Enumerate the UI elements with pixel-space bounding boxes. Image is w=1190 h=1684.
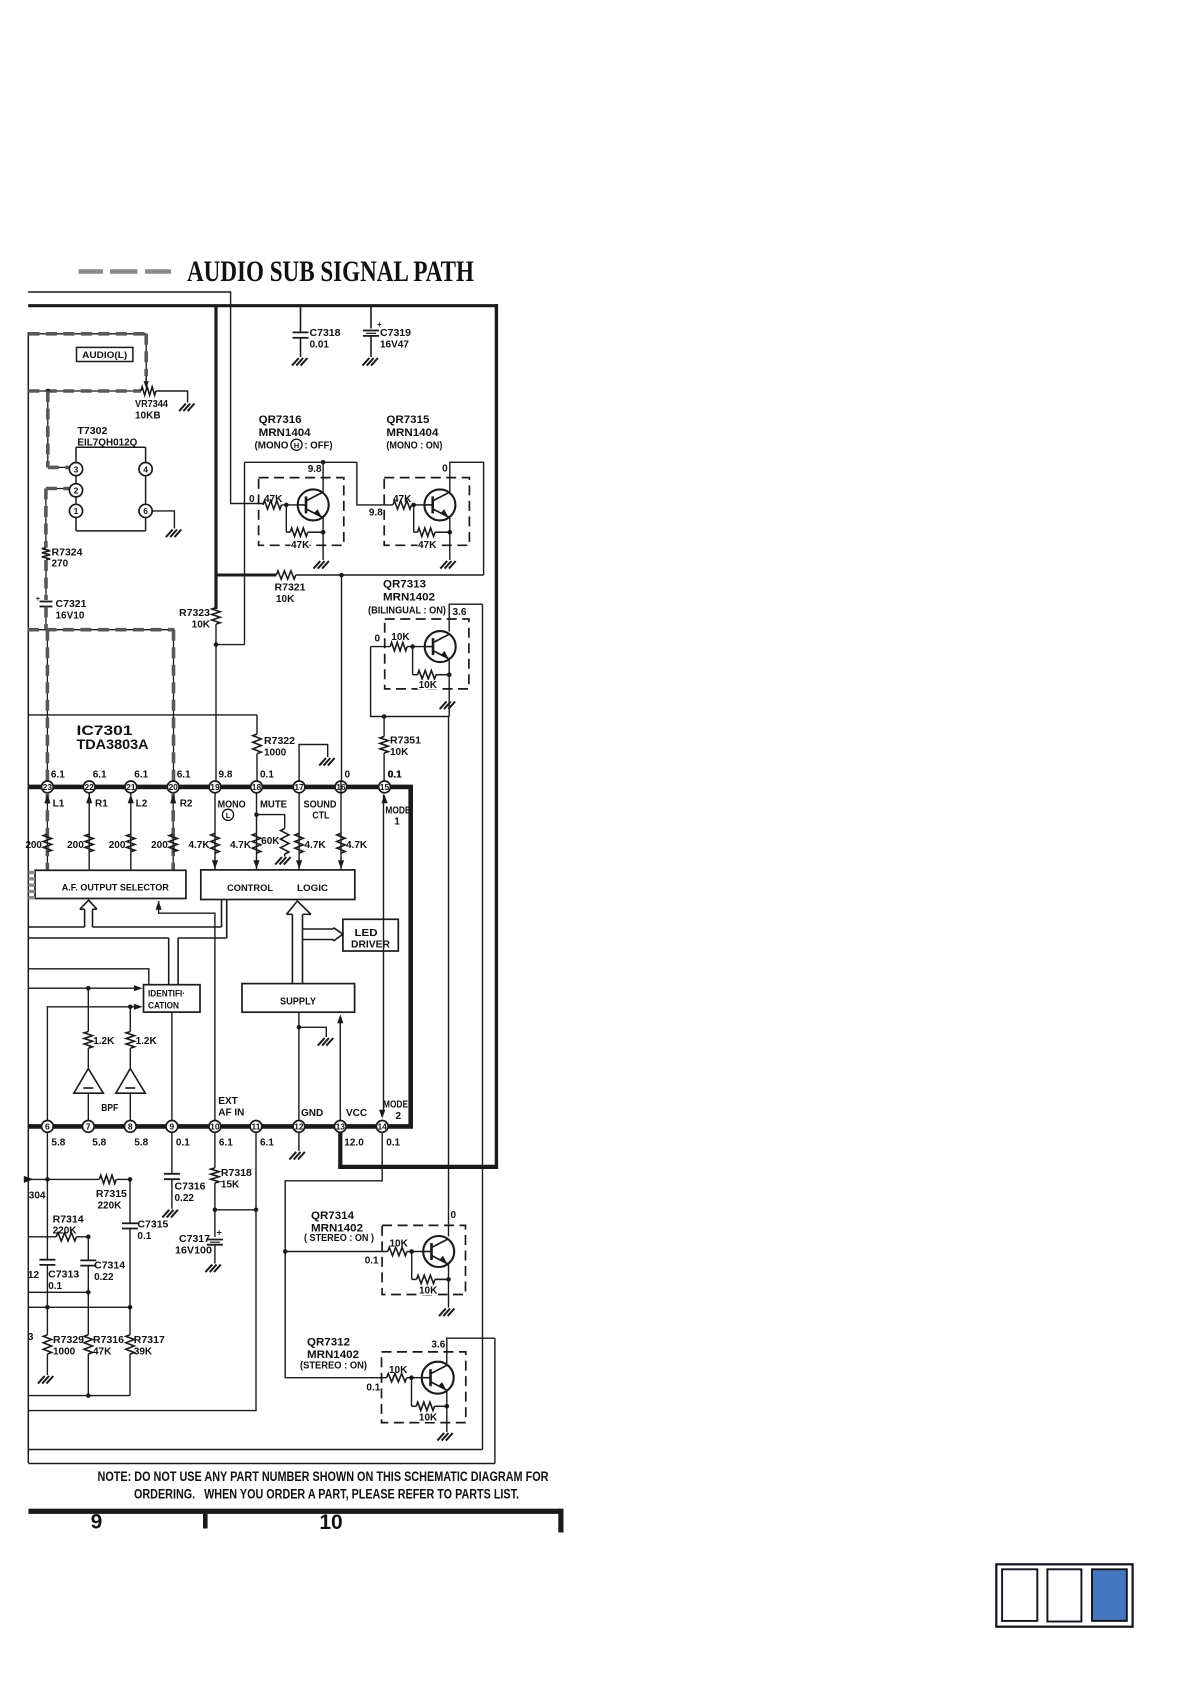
svg-text:3.6: 3.6	[453, 607, 467, 618]
IC7301 top pin bar	[28, 785, 413, 790]
pin 12 IC7301	[293, 1121, 305, 1133]
ground at C7316	[162, 1210, 169, 1218]
junction R7351 top	[382, 714, 387, 719]
wire: QR7312 emitter to ground	[446, 1390, 448, 1432]
wire: pin 21 to selector	[130, 793, 132, 871]
resistor 4.7K (pin18)	[230, 833, 261, 853]
junction mode2 to QR7314	[283, 1249, 288, 1254]
svg-text:9: 9	[91, 1511, 103, 1534]
svg-text:MODE: MODE	[385, 806, 410, 817]
svg-text:C7321: C7321	[56, 599, 87, 610]
junction QR7316 emitter	[321, 530, 326, 535]
svg-text:270: 270	[52, 559, 69, 570]
svg-text:47K: 47K	[393, 494, 412, 505]
svg-text:0: 0	[345, 770, 351, 781]
wire: QR7313 emitter to loop	[448, 658, 450, 716]
wire: bottom rail to QR7312 3.6	[28, 1463, 495, 1465]
svg-text:0: 0	[375, 634, 381, 645]
svg-text:MODE: MODE	[383, 1100, 408, 1111]
svg-text:R7317: R7317	[134, 1335, 165, 1346]
svg-text:AUDIO(L): AUDIO(L)	[82, 350, 127, 360]
wire: rail to R7322	[28, 714, 257, 716]
svg-text:R7318: R7318	[221, 1168, 252, 1179]
svg-text:4.7K: 4.7K	[230, 840, 252, 851]
wire: QR7314 emitter to ground	[448, 1263, 450, 1307]
svg-text:C7316: C7316	[175, 1182, 206, 1193]
wire: line into identification top	[28, 969, 149, 985]
svg-text:MONO: MONO	[218, 800, 246, 811]
wire: pin 9 to identification	[171, 1012, 173, 1120]
resistor 60K	[261, 828, 289, 854]
resistor R7314 220K	[28, 1215, 88, 1242]
wire: 47K to base	[282, 504, 298, 506]
wire: pin 6 column down	[46, 1132, 48, 1259]
svg-text:5.8: 5.8	[134, 1138, 148, 1149]
bpf comparator (pin8)	[116, 1048, 146, 1120]
svg-text:: OFF): : OFF)	[305, 441, 333, 452]
arrow up into pin 15	[381, 795, 387, 804]
resistor 47K QR7316 base	[263, 494, 283, 509]
svg-text:10K: 10K	[390, 1239, 409, 1250]
resistor 10K QR7312 base	[387, 1365, 409, 1382]
svg-text:2: 2	[74, 486, 79, 496]
ground at R7329	[38, 1376, 45, 1384]
bus duct control logic to supply	[287, 901, 312, 984]
wire: 9.8 rail down to R7323 node	[244, 462, 246, 644]
svg-text:H: H	[294, 441, 299, 450]
arrow into pin above R1	[86, 795, 108, 810]
svg-text:LOGIC: LOGIC	[297, 883, 328, 894]
wire: audio path to T7302 pin 3	[48, 466, 70, 468]
ground at QR7314	[439, 1309, 446, 1317]
pin 20 IC7301	[167, 770, 191, 793]
svg-text:QR7312: QR7312	[307, 1337, 350, 1349]
svg-text:5.8: 5.8	[92, 1138, 106, 1149]
potentiometer VR7344 10KB	[135, 387, 168, 422]
junction R7314 pin7 column	[86, 1235, 91, 1240]
svg-text:10K: 10K	[419, 1286, 438, 1297]
junction common R7316	[86, 1393, 91, 1398]
bus duct branch down to identification	[169, 938, 178, 985]
wire: R7329 to ground	[46, 1354, 48, 1375]
wire: QR7316 collector node 9.8 rail	[245, 461, 357, 463]
junction pin 11 column	[254, 1208, 259, 1213]
bus duct branch up to selector arrow	[80, 900, 97, 927]
pin 23 IC7301	[42, 770, 66, 793]
wire: QR7316 collector up	[322, 462, 324, 493]
label MODE 2 above pin 14	[383, 1100, 408, 1123]
dashed box QR7314	[382, 1225, 465, 1294]
junction QR7315 emitter	[448, 530, 453, 535]
junction rail y1307 pin8	[128, 1305, 133, 1310]
transistor QR7315 label	[386, 414, 442, 452]
svg-text:AUDIO SUB SIGNAL PATH: AUDIO SUB SIGNAL PATH	[187, 255, 474, 288]
svg-text:0.01: 0.01	[310, 340, 330, 351]
svg-text:23: 23	[43, 782, 53, 792]
svg-text:12: 12	[28, 1270, 40, 1281]
capacitor C7321 16V10	[36, 596, 87, 622]
svg-text:0.1: 0.1	[386, 1138, 400, 1149]
svg-text:12: 12	[294, 1122, 304, 1132]
svg-text:200: 200	[67, 840, 84, 851]
IC7301 bottom pin bar	[28, 1124, 413, 1129]
svg-text:R7324: R7324	[52, 548, 83, 559]
capacitor C7314 0.22	[80, 1237, 125, 1293]
IC7301 label	[77, 723, 149, 752]
wire: supply to pin 12	[298, 1012, 300, 1120]
resistor 200 (L2)	[109, 834, 135, 852]
transistor QR7314	[423, 1236, 454, 1267]
ground at QR7315	[440, 561, 447, 569]
svg-text:C7313: C7313	[48, 1270, 79, 1281]
capacitor C7316 0.22	[164, 1132, 206, 1209]
ground at C7318	[292, 358, 299, 366]
svg-text:16V100: 16V100	[175, 1246, 212, 1257]
pin 21 IC7301	[125, 770, 149, 793]
pin 18 IC7301	[251, 770, 275, 793]
svg-text:200: 200	[151, 840, 168, 851]
resistor 10K QR7313 base	[390, 632, 410, 651]
ground at C7317	[205, 1265, 212, 1273]
transistor QR7313 label	[368, 579, 446, 617]
resistor R7324 270	[42, 548, 83, 570]
junction QR7316 collector	[321, 460, 326, 465]
svg-text:0.1: 0.1	[388, 770, 402, 781]
wire: thin top line (QR7316 input feed)	[28, 292, 263, 504]
svg-text:TDA3803A: TDA3803A	[77, 737, 149, 752]
junction QR7316 base	[284, 503, 289, 508]
pin 11 IC7301	[250, 1121, 274, 1149]
svg-text:EXT: EXT	[218, 1096, 237, 1107]
resistor 1.2K (pin7)	[84, 988, 115, 1048]
wire: audio path down to pin 23	[46, 630, 48, 781]
wire: base line QR7313	[371, 646, 391, 648]
svg-text:1.2K: 1.2K	[93, 1036, 115, 1047]
svg-text:(STEREO : ON): (STEREO : ON)	[300, 1361, 367, 1372]
svg-text:1000: 1000	[264, 748, 287, 759]
svg-text:1.2K: 1.2K	[136, 1036, 158, 1047]
wire: pin 16 column to control logic	[340, 781, 342, 870]
page indicator square 3 (current page)	[1092, 1569, 1127, 1621]
svg-text:A.F. OUTPUT SELECTOR: A.F. OUTPUT SELECTOR	[62, 883, 169, 894]
svg-text:0: 0	[442, 464, 448, 475]
ruler end tick	[558, 1509, 563, 1533]
svg-text:(BILINGUAL : ON): (BILINGUAL : ON)	[368, 606, 446, 617]
capacitor C7319 16V47 (electrolytic)	[363, 307, 411, 357]
wire: QR7315 base divider down	[413, 505, 415, 532]
wire: R7324 to C7321	[45, 560, 47, 600]
dashed box QR7312	[382, 1352, 466, 1423]
wire: R7321 to QR7315 collector rail	[296, 574, 484, 576]
resistor 4.7K (pin16)	[337, 833, 368, 853]
svg-text:10K: 10K	[391, 632, 410, 643]
svg-text:0.22: 0.22	[175, 1193, 195, 1204]
svg-text:10: 10	[319, 1511, 342, 1534]
svg-text:0.1: 0.1	[366, 1383, 380, 1394]
wire: pin 17 to ground branch	[299, 745, 328, 782]
svg-text:C7314: C7314	[94, 1261, 125, 1272]
pin 7 IC7301	[82, 1121, 106, 1149]
svg-text:BPF: BPF	[101, 1103, 118, 1114]
svg-text:10K: 10K	[389, 1365, 408, 1376]
wire: R7318 node to pin 11 column	[215, 1209, 256, 1211]
resistor 4.7K (pin17)	[295, 833, 327, 853]
svg-text:(MONO: (MONO	[255, 441, 289, 452]
block LED DRIVER	[343, 919, 398, 951]
svg-text:4.7K: 4.7K	[188, 840, 210, 851]
svg-text:MRN1402: MRN1402	[307, 1349, 359, 1361]
junction on audio path	[46, 389, 51, 394]
wire: QR7316 base divider down	[285, 505, 287, 532]
arrow into pin above L2	[128, 795, 148, 810]
resistor 200 (R2)	[151, 834, 177, 852]
svg-text:6.1: 6.1	[219, 1138, 233, 1149]
svg-text:IDENTIFI·: IDENTIFI·	[148, 989, 185, 999]
pin 8 IC7301	[124, 1121, 148, 1149]
arrow into pin above R2	[170, 795, 193, 810]
junction pin8 column R7315	[128, 1177, 133, 1182]
wire: audio path into VR7344 wiper arrow	[145, 376, 147, 382]
resistor 200 (L1)	[25, 834, 51, 852]
resistor R7329 1000	[43, 1335, 84, 1358]
block A.F. OUTPUT SELECTOR	[35, 870, 186, 898]
block IDENTIFICATION	[144, 985, 201, 1012]
svg-text:60K: 60K	[261, 836, 280, 847]
wire: audio path C7321 down	[45, 607, 47, 630]
junction R7318 / pin11 rail	[213, 1208, 218, 1213]
resistor R7315 220K	[96, 1175, 130, 1211]
page indicator square 2	[1047, 1569, 1081, 1621]
resistor 10K QR7314 base	[388, 1239, 409, 1256]
svg-text:R7314: R7314	[53, 1215, 84, 1226]
wire: R7315 rail	[32, 1178, 100, 1180]
svg-text:R1: R1	[95, 799, 108, 810]
wire: VR7344 to ground	[156, 391, 188, 403]
wire: heavy vertical bus left (to R7323)	[214, 306, 217, 609]
node AUDIO(L) box	[77, 347, 133, 361]
resistor 10K QR7312 emitter	[412, 1402, 447, 1423]
svg-text:6.1: 6.1	[51, 770, 65, 781]
svg-text:R2: R2	[180, 799, 193, 810]
svg-text:200: 200	[109, 840, 126, 851]
pin 6 IC7301	[42, 1121, 66, 1149]
svg-text:4.7K: 4.7K	[346, 840, 368, 851]
wire: audio path below pin 23	[46, 793, 48, 871]
svg-text:6: 6	[45, 1122, 50, 1132]
ground at pin 17 branch	[319, 758, 326, 766]
wire: audio path from T7302 pin 2	[46, 489, 69, 548]
wire: rail y1292	[28, 1291, 88, 1293]
junction rail y1292 pin7	[86, 1290, 91, 1295]
junction QR7313 emitter	[447, 672, 452, 677]
wire: audio path down-left branch	[47, 391, 49, 467]
resistor R7323 10K	[179, 608, 220, 631]
svg-text:LED: LED	[355, 928, 378, 939]
dashed box QR7316	[259, 478, 344, 546]
junction identification input A / pin7 column	[86, 986, 91, 991]
label SOUND CTL under pin 17	[304, 800, 337, 822]
label MONO L under pin 19	[218, 800, 246, 821]
bus duct branch to LED driver	[303, 928, 343, 941]
svg-text:3: 3	[74, 464, 79, 474]
svg-text:NOTE: DO NOT USE ANY PART NUMB: NOTE: DO NOT USE ANY PART NUMBER SHOWN O…	[98, 1469, 549, 1484]
wire: down to pin 16	[341, 575, 343, 781]
left page border	[27, 332, 29, 1463]
svg-text:0.1: 0.1	[137, 1231, 151, 1242]
page-edge hatch left of selector	[29, 873, 36, 898]
pin 13 IC7301	[334, 1121, 364, 1149]
svg-text:220K: 220K	[53, 1226, 78, 1237]
wire: mode2 to QR7312 base	[285, 1377, 386, 1379]
svg-text:VR7344: VR7344	[135, 399, 168, 410]
svg-text:10KB: 10KB	[135, 411, 161, 422]
svg-text:0: 0	[249, 494, 255, 505]
svg-text:220K: 220K	[98, 1201, 123, 1212]
junction rail y1307 pin6	[45, 1305, 50, 1310]
wire: pin6 column to R7329	[46, 1307, 48, 1334]
capacitor C7315 0.1	[122, 1179, 169, 1307]
svg-text:L2: L2	[136, 799, 148, 810]
svg-text:CTL: CTL	[312, 811, 329, 822]
svg-text:6: 6	[143, 506, 148, 516]
arrow into control logic	[296, 860, 302, 869]
svg-text:200: 200	[25, 840, 42, 851]
wire: QR7312 collector to 3.6 rail	[447, 1338, 495, 1363]
resistor R7317 39K	[126, 1335, 165, 1358]
bus duct horizontal to selector	[28, 927, 226, 938]
svg-text:MRN1404: MRN1404	[386, 427, 439, 439]
svg-text:VCC: VCC	[346, 1108, 367, 1119]
svg-text:39K: 39K	[134, 1347, 153, 1358]
junction QR7314 base	[409, 1249, 414, 1254]
resistor 47K QR7315 emitter	[414, 528, 450, 551]
svg-text:11: 11	[252, 1122, 261, 1132]
ground at VR7344	[179, 404, 186, 412]
svg-text:C7319: C7319	[380, 328, 411, 339]
svg-text:R7351: R7351	[390, 736, 421, 747]
wire: QR7316 emitter down	[322, 517, 324, 561]
ruler mid tick	[203, 1514, 208, 1529]
wire: QR7314 base divider down	[411, 1252, 413, 1280]
svg-text:16V10: 16V10	[56, 611, 85, 622]
wire: 60K to ground	[284, 854, 286, 856]
svg-text:QR7314: QR7314	[311, 1210, 355, 1222]
svg-text:0.1: 0.1	[365, 1256, 379, 1267]
junction QR7313 base	[410, 644, 415, 649]
ground at QR7312	[437, 1433, 444, 1441]
wire: identification input B from pin 6	[47, 1004, 142, 1121]
svg-text:5.8: 5.8	[51, 1138, 65, 1149]
svg-text:6.1: 6.1	[134, 770, 148, 781]
svg-text:R7322: R7322	[264, 736, 295, 747]
wire: pin 17 column to control logic	[298, 793, 300, 870]
transistor QR7315	[424, 489, 455, 520]
svg-text:6.1: 6.1	[177, 770, 191, 781]
svg-text:MUTE: MUTE	[260, 800, 287, 811]
svg-text:1: 1	[74, 506, 79, 516]
resistor 10K QR7313 emitter	[413, 671, 450, 692]
svg-text:1000: 1000	[53, 1347, 76, 1358]
wire: rail y1307	[28, 1306, 130, 1308]
resistor 47K QR7315 base	[393, 494, 412, 509]
svg-text:21: 21	[126, 782, 136, 792]
svg-text:9: 9	[170, 1122, 175, 1132]
arrow into pin above L1	[44, 795, 64, 810]
svg-text:MRN1404: MRN1404	[259, 427, 312, 439]
resistor 4.7K (pin19)	[188, 833, 219, 853]
svg-text:9.8: 9.8	[219, 770, 233, 781]
svg-text:R7321: R7321	[275, 583, 306, 594]
svg-text:18: 18	[252, 782, 262, 792]
wire: 9.8 rail to QR7315 base	[357, 462, 393, 505]
wire: R7323 node to 9.8 rail	[216, 644, 245, 646]
wire: QR7313 base return loop	[371, 647, 450, 717]
wire: selector feedback to pin 10 (EXT AF IN)	[156, 901, 215, 1121]
ground at supply branch	[318, 1038, 325, 1046]
svg-text:0.1: 0.1	[176, 1138, 190, 1149]
label MODE 1 under pin 15	[385, 806, 410, 828]
svg-text:6.1: 6.1	[260, 1138, 274, 1149]
junction QR7312 base	[409, 1375, 414, 1380]
svg-text:CONTROL: CONTROL	[227, 883, 273, 894]
svg-text:10K: 10K	[276, 594, 295, 605]
pin 17 IC7301	[293, 781, 305, 793]
pin 10 IC7301	[209, 1121, 233, 1149]
svg-text:19: 19	[210, 782, 220, 792]
junction supply branch	[297, 1025, 302, 1030]
resistor R7322 1000	[253, 715, 296, 781]
svg-text:0.1: 0.1	[260, 770, 274, 781]
transistor QR7312	[422, 1362, 454, 1394]
transformer T7302 EIL7QH012Q	[69, 425, 152, 531]
wire: 47K to QR7315 base	[412, 504, 425, 506]
wire: QR7313 collector to 3.6 rail	[449, 604, 482, 631]
svg-text:10K: 10K	[390, 747, 409, 758]
transistor QR7314 label	[304, 1210, 374, 1244]
pin 19 IC7301	[209, 770, 233, 793]
svg-text:R7316: R7316	[93, 1335, 124, 1346]
wire: pin 12 to ground	[298, 1132, 300, 1151]
svg-text:SUPPLY: SUPPLY	[280, 996, 316, 1008]
pin 9 IC7301	[166, 1121, 190, 1149]
page indicator square 1	[1002, 1569, 1037, 1621]
resistor R7351 10K	[380, 717, 422, 782]
wire: mode2 to QR7314 base	[285, 1251, 388, 1253]
block SUPPLY	[242, 984, 355, 1013]
svg-text:7: 7	[86, 1122, 91, 1132]
svg-text:4: 4	[143, 464, 148, 474]
arrow into control logic	[253, 860, 259, 869]
svg-text:9.8: 9.8	[369, 508, 383, 519]
svg-text:( STEREO : ON ): ( STEREO : ON )	[304, 1233, 374, 1244]
svg-text:2: 2	[396, 1111, 402, 1122]
wire: heavy vertical bus right edge	[495, 304, 498, 1167]
arrow down into pin 14	[379, 1110, 385, 1119]
svg-text:CATION: CATION	[148, 1001, 179, 1011]
svg-text:47K: 47K	[93, 1347, 112, 1358]
svg-text:C7317: C7317	[179, 1234, 210, 1245]
svg-text:1: 1	[394, 816, 400, 827]
junction MUTE branch	[254, 812, 259, 817]
ground at QR7316	[314, 561, 321, 569]
wire: long 0 rail to QR7314 collector	[448, 717, 450, 1237]
wire: 10K to QR7314 base	[407, 1251, 423, 1253]
svg-text:3.6: 3.6	[431, 1340, 445, 1351]
svg-text:15K: 15K	[221, 1180, 240, 1191]
wire: pin column to control logic	[214, 793, 216, 870]
svg-text:4.7K: 4.7K	[305, 840, 327, 851]
wire: pin 14 to mode2 branch	[285, 1132, 382, 1377]
